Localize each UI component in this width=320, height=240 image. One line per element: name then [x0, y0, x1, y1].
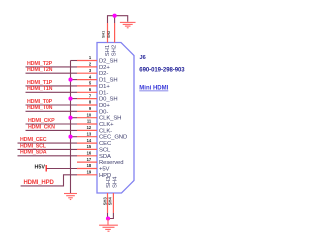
wire HDMI_T2N [26, 72, 78, 74]
wire HDMI_SCL [18, 148, 78, 150]
svg-text:HDMI_SCL: HDMI_SCL [20, 143, 47, 149]
svg-text:HDMI_T2N: HDMI_T2N [27, 67, 53, 73]
wire SH4 to junction [108, 213, 114, 219]
svg-text:HDMI_T1P: HDMI_T1P [27, 80, 53, 86]
svg-text:CLK_SH: CLK_SH [99, 116, 121, 122]
pin 18 [77, 168, 97, 170]
wire bus to pin 7 [71, 98, 78, 100]
svg-text:CLK-: CLK- [99, 128, 112, 134]
svg-text:HDMI_HPD: HDMI_HPD [24, 180, 55, 186]
svg-text:J6: J6 [140, 55, 146, 61]
pin 11 [77, 123, 97, 125]
wire bus to pin 13 [71, 136, 78, 138]
pin 4 [77, 79, 97, 81]
svg-text:12: 12 [87, 125, 92, 130]
wire HDMI_HPD [21, 175, 77, 186]
pin 2 [77, 66, 97, 68]
wire HDMI_CEC [18, 142, 78, 144]
pin 15 [77, 148, 97, 150]
left pins 1-19 [77, 61, 97, 175]
svg-text:SCL: SCL [99, 147, 111, 153]
svg-text:10: 10 [87, 112, 92, 117]
svg-text:SH2: SH2 [112, 45, 118, 56]
svg-text:19: 19 [87, 170, 92, 175]
wire HDMI_SDA [18, 155, 78, 157]
svg-text:Reserved: Reserved [99, 160, 123, 166]
svg-text:13: 13 [87, 131, 92, 136]
svg-text:D2_SH: D2_SH [99, 59, 118, 65]
svg-text:17: 17 [87, 157, 92, 162]
svg-text:SH2: SH2 [107, 31, 111, 38]
svg-text:11: 11 [87, 119, 92, 124]
svg-text:18: 18 [87, 163, 92, 168]
svg-text:H5V: H5V [35, 164, 46, 170]
junction bus pin10 [68, 116, 72, 120]
pin 9 [77, 110, 97, 112]
svg-text:D2-: D2- [99, 71, 108, 77]
junction (top) [113, 14, 117, 18]
wire HDMI_T1N [26, 91, 78, 93]
wire SH3 to bottom ground [107, 213, 109, 219]
pin SH4 (bottom) [112, 193, 114, 213]
ground (shield bus) [64, 194, 77, 200]
svg-text:SH1: SH1 [102, 31, 106, 38]
pin 14 [77, 142, 97, 144]
wire HDMI_T0P [26, 104, 78, 106]
svg-text:HDMI_T1N: HDMI_T1N [27, 86, 53, 92]
svg-text:+5V: +5V [99, 167, 110, 173]
ground (bottom) [99, 219, 118, 232]
ground (top) [120, 22, 136, 27]
svg-text:D1-: D1- [99, 90, 108, 96]
connector J6 body (Mini HDMI) [97, 43, 134, 194]
pin 12 [77, 129, 97, 131]
svg-text:SH3: SH3 [106, 176, 112, 188]
wire bus to pin 10 [71, 117, 78, 119]
pin SH1 (top) [107, 23, 109, 43]
svg-text:Mini HDMI: Mini HDMI [139, 86, 168, 92]
svg-text:SH1: SH1 [105, 45, 111, 56]
svg-text:D1+: D1+ [99, 84, 110, 90]
pin 17 [77, 161, 97, 163]
svg-text:SH4: SH4 [112, 176, 118, 188]
power symbol H5V bar [45, 165, 47, 172]
svg-text:14: 14 [87, 138, 92, 143]
svg-text:D0-: D0- [99, 109, 108, 115]
shield bus vertical wire [70, 61, 72, 194]
pin 10 [77, 117, 97, 119]
wire HDMI_CKP [26, 123, 78, 125]
wire bus to pin 1 [71, 60, 78, 62]
wire HDMI_CKN [26, 129, 78, 131]
pin 19 [77, 174, 97, 176]
svg-text:HDMI_CEC: HDMI_CEC [20, 137, 47, 143]
svg-text:D0_SH: D0_SH [99, 97, 118, 103]
pin 16 [77, 155, 97, 157]
junction bus pin4 [68, 78, 72, 82]
svg-text:HDMI_T0N: HDMI_T0N [27, 105, 53, 111]
pin SH3 (bottom) [107, 193, 109, 213]
junction (bottom) [106, 216, 110, 220]
wire SH2 stub [114, 16, 116, 23]
svg-text:HDMI_T2P: HDMI_T2P [27, 61, 53, 67]
wire H5V to pin 18 [46, 168, 77, 170]
svg-text:SDA: SDA [99, 154, 111, 160]
svg-text:HDMI_CKP: HDMI_CKP [28, 118, 55, 124]
svg-text:D2+: D2+ [99, 65, 110, 71]
svg-text:SH4: SH4 [108, 197, 113, 206]
pin 3 [77, 72, 97, 74]
pin 6 [77, 91, 97, 93]
pin 8 [77, 104, 97, 106]
svg-text:D0+: D0+ [99, 103, 110, 109]
svg-text:HDMI_CKN: HDMI_CKN [28, 124, 55, 130]
svg-text:D1_SH: D1_SH [99, 78, 118, 84]
wire HDMI_T1P [26, 85, 78, 87]
pin SH2 (top) [114, 23, 116, 43]
pin 1 [77, 60, 97, 62]
svg-text:HDMI_T0P: HDMI_T0P [27, 99, 53, 105]
pin 5 [77, 85, 97, 87]
svg-text:CEC_GND: CEC_GND [99, 135, 127, 141]
pin 7 [77, 98, 97, 100]
svg-text:CEC: CEC [99, 141, 112, 147]
svg-text:CLK+: CLK+ [99, 122, 114, 128]
svg-text:690-019-298-903: 690-019-298-903 [139, 67, 185, 73]
svg-text:15: 15 [87, 144, 92, 149]
wire SH1/SH2 to top ground [108, 16, 128, 23]
pin numbers 1-19 [87, 55, 92, 174]
junction bus pin7 [68, 97, 72, 101]
svg-text:HDMI_SDA: HDMI_SDA [20, 150, 47, 156]
wire HDMI_T2P [26, 66, 78, 68]
pin names inside body [99, 59, 127, 179]
svg-text:16: 16 [87, 151, 92, 156]
pin 13 [77, 136, 97, 138]
junction bus pin13 [68, 135, 72, 139]
wire bus to pin 4 [71, 79, 78, 81]
wire HDMI_T0N [26, 110, 78, 112]
